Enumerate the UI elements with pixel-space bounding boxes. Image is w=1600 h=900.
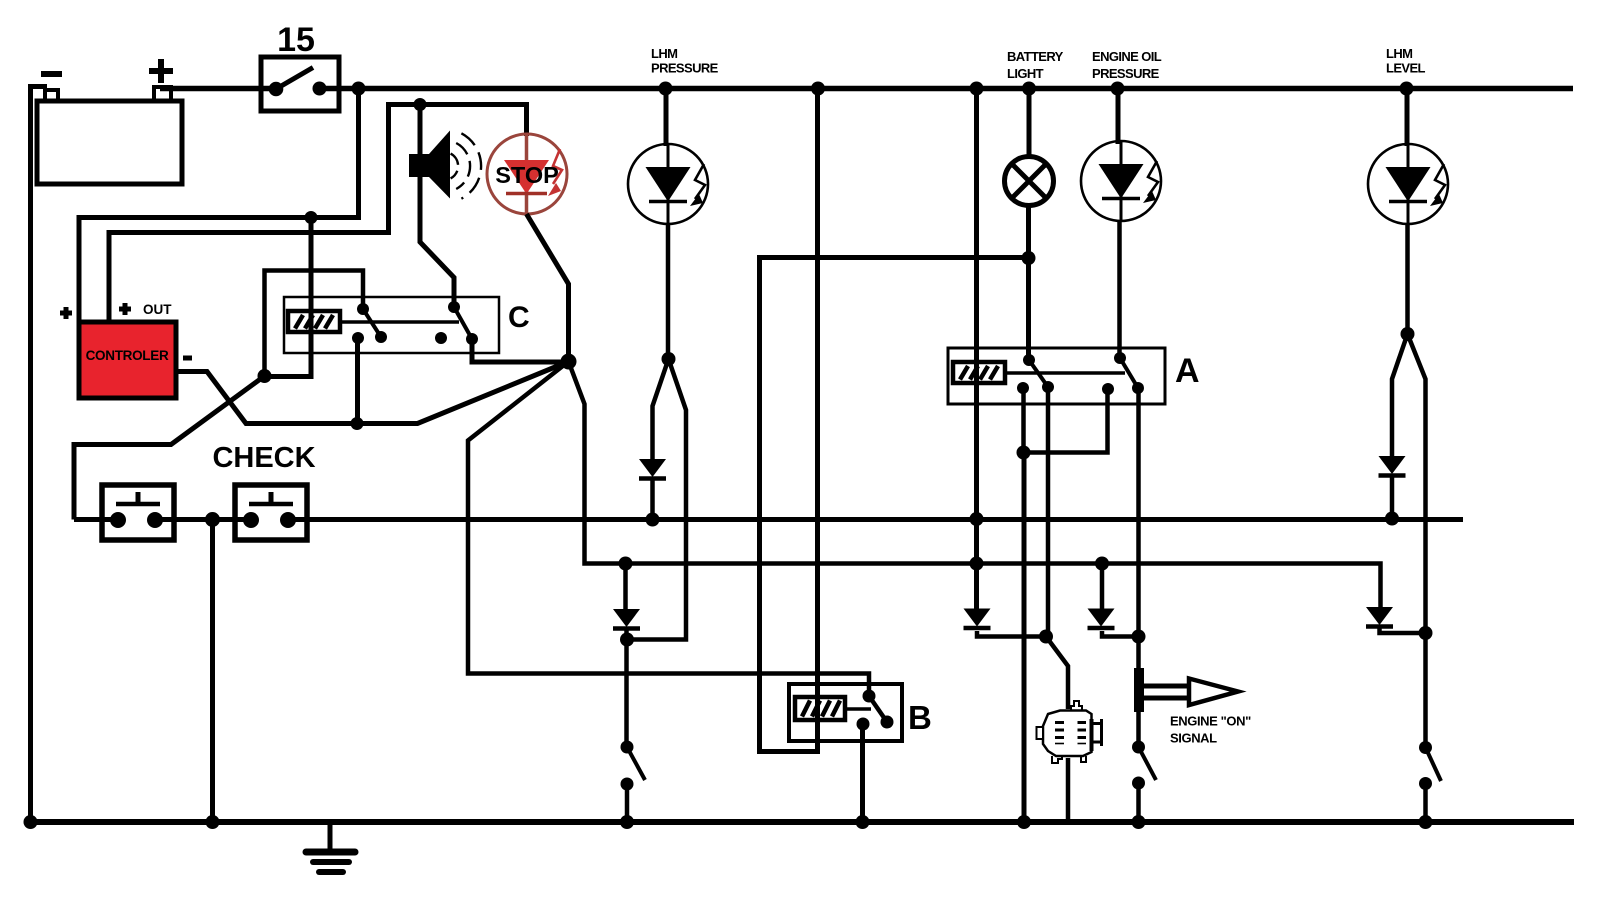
svg-text:SIGNAL: SIGNAL [1170,731,1217,746]
wire split right leg down to switch [1408,334,1426,746]
wire to engine oil LED [1116,91,1121,144]
wire lamp down [1026,205,1031,258]
node split lhm pressure [662,352,676,366]
wire battery negative to ground left side [31,87,48,823]
wire switch x1425 to ground [1423,784,1428,823]
battery minus label [41,71,62,77]
svg-text:BATTERY: BATTERY [1007,49,1064,64]
relay C left switch [352,303,387,344]
node split lhm level [1401,327,1415,341]
wire node x625 down to diode D2 [623,564,628,610]
svg-text:ENGINE OIL: ENGINE OIL [1092,49,1162,64]
pushbutton check 2 [235,485,307,540]
wire to LHM pressure LED [664,91,669,146]
node relay A bottom junction [1017,446,1031,460]
wire split left leg to diode [653,359,669,459]
ground bus [28,819,1574,825]
node bus519 x977 [970,512,984,526]
check row bus 519 segment 1 [74,517,118,522]
svg-text:PRESSURE: PRESSURE [651,61,719,76]
relay B box [789,684,902,741]
node bus563 x977 [970,557,984,571]
wire LHM level LED down to split [1405,223,1410,334]
stop LED indicator [487,134,567,214]
battery lamp [1005,157,1054,206]
diode D5 [1379,456,1406,476]
label minus out [183,356,192,361]
svg-text:LEVEL: LEVEL [1386,61,1426,76]
wire split left leg to diode D5 [1392,334,1408,456]
ground symbol [306,825,355,872]
wire split right leg down [628,359,687,640]
switch x1138 [1132,741,1156,790]
node bus563 x1102 [1095,557,1109,571]
relay C link [340,320,459,324]
svg-text:PRESSURE: PRESSURE [1092,66,1160,81]
relay C box [284,297,499,353]
label plus left [60,307,72,319]
wire stop LED down to node [527,214,569,362]
node bus88-A [352,82,366,96]
relay B link [845,707,871,711]
top supply bus left segment [160,86,276,92]
node lamp bottom [1022,251,1036,265]
battery plus label [149,59,173,83]
relay A coil [953,362,1005,383]
controller module [79,322,176,398]
engine on arrow [1144,679,1238,706]
relay A link [1005,371,1125,375]
svg-text:LIGHT: LIGHT [1007,66,1044,81]
node bus519 x1392 [1385,512,1399,526]
speaker buzzer [409,131,481,199]
node x627 y639 [620,633,634,647]
diode D1 [639,459,666,479]
diode D3 [964,609,991,629]
wire controller minus diagonal to lower bus [176,362,569,424]
wire diode D1 to bus519 [650,480,655,519]
wire to LHM level LED [1405,91,1410,146]
LHM pressure LED [628,144,708,224]
wire LED to split [666,223,671,359]
node bus88 x1029 [1022,82,1036,96]
wire node to mid bus 563 [569,362,1381,610]
ignition switch 15 [261,57,339,111]
wire relay C left bottom contact down [355,338,360,423]
wire relay A right blade contact down [1136,388,1141,747]
wire relay B bottom contact to ground [860,724,865,822]
wire bus563 end diode D6 [1366,607,1393,627]
svg-text:CHECK: CHECK [212,442,315,474]
node x264 [258,369,272,383]
svg-text:B: B [908,699,932,736]
wire bus88 down to relay B loop and battery lamp [760,91,1029,752]
svg-text:CONTROLER: CONTROLER [86,348,169,363]
node bus88 x818 [811,82,825,96]
diode D4 [1088,609,1115,629]
switch x628 [621,741,646,791]
node speaker tap [414,98,427,111]
pushbutton check 1 [102,485,174,540]
wire controller out to buzzer/stop line [109,105,527,323]
wire diode D2 through node to switch [624,630,629,747]
check row bus 519 segment 2 [155,517,250,522]
wire diode D6 to x1425 [1380,628,1426,633]
battery BT1 [37,87,182,184]
svg-text:OUT: OUT [143,302,172,317]
alternator [1037,701,1102,763]
wire relay A bottom left U link [1024,388,1108,453]
relay C coil [288,311,340,332]
engine on connector [1134,668,1144,712]
wire diode D3 to junction x1046 [977,631,1046,637]
wire relay C right blade contact to node [472,339,568,362]
node bus519 x652 [646,513,660,527]
ground node dots [24,815,38,829]
svg-text:A: A [1175,352,1200,390]
LHM level LED [1368,144,1448,224]
wire relay C left top contact loop [265,271,364,377]
node y423 [351,417,364,430]
wire diode D5 to bus519 [1390,477,1395,519]
svg-text:ENGINE "ON": ENGINE "ON" [1170,714,1251,729]
top supply bus right segment [318,86,1573,92]
svg-text:15: 15 [277,21,315,59]
wire x311 down [266,218,311,377]
wire check junction to ground [210,520,215,823]
node bus88 x1117 [1111,82,1125,96]
wire speaker branch down to relay C right switch [420,105,454,308]
node bus563 x625 [619,557,633,571]
central node [561,354,577,370]
node bus88 lhm pressure [659,82,673,96]
relay C right switch [435,301,478,345]
wire junction down to ground [1022,453,1027,823]
wire relay A left blade contact down [1046,387,1051,637]
wire node to diode D4 [1100,564,1105,611]
relay B switch [857,690,894,731]
node y217 [305,211,318,224]
wire bus to controller plus [79,91,359,322]
wire x1046 to alternator [1046,637,1068,710]
node bus88 x1406 [1400,82,1414,96]
relay A left switch [1017,354,1054,394]
wire engine oil LED to relay A right top contact [1117,220,1122,358]
wire diagonal to check row [74,376,265,520]
node check junction [205,512,220,527]
wire alternator to ground [1066,758,1071,820]
wire switch x1138 to ground [1136,783,1141,822]
svg-text:C: C [508,301,530,334]
switch x1425 [1419,741,1441,790]
wire bus to battery lamp [1027,91,1032,158]
node bus88 x976 [970,82,984,96]
svg-text:LHM: LHM [1386,46,1412,61]
diode D2 [613,609,640,629]
relay A right switch [1102,352,1144,395]
svg-text:LHM: LHM [651,46,677,61]
svg-text:STOP: STOP [495,162,559,188]
wire x976 down through relay A to diode D3 [974,91,979,610]
wire diode D4 to x1138 [1102,631,1138,637]
check row bus 519 segment 3 [287,517,1463,522]
wire lamp to relay A left top contact [1026,258,1031,360]
engine oil pressure LED [1081,141,1161,221]
wire switch x628 to ground [625,784,630,822]
relay A box [948,348,1165,404]
label plus out [119,303,131,315]
node x1425 y633 [1419,626,1433,640]
relay B coil [795,697,845,720]
wire node to relay B top contact [468,362,869,697]
node x1046 y636 [1039,630,1053,644]
node x1138 y636 [1132,630,1146,644]
